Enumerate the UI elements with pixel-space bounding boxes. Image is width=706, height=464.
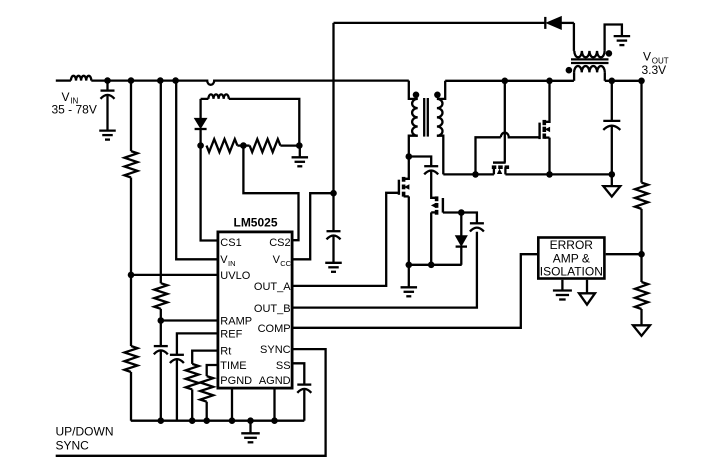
wire error amp output bbox=[606, 253, 642, 255]
label LM5025 bbox=[233, 216, 277, 230]
capacitor C_ramp bbox=[154, 346, 168, 354]
capacitor C_out bbox=[603, 121, 620, 130]
wire VIN input lead bbox=[56, 79, 71, 81]
wire secondary top rail bbox=[445, 80, 574, 82]
wire top line drop bbox=[332, 23, 334, 231]
wire REF pin line bbox=[177, 333, 217, 354]
winding L_out top bbox=[574, 51, 604, 57]
svg-text:TIME: TIME bbox=[220, 360, 246, 372]
node Rt ground bbox=[189, 417, 196, 424]
pin label UVLO bbox=[220, 270, 250, 282]
wire SYNC route bbox=[56, 349, 326, 456]
node Vout cap tap bbox=[609, 78, 616, 85]
node choke bottom phase dot bbox=[566, 67, 573, 74]
svg-text:CS1: CS1 bbox=[220, 237, 241, 249]
wire SS route bbox=[294, 363, 305, 384]
node sync gate tap bbox=[502, 78, 509, 85]
wire C_ss to rail bbox=[303, 389, 305, 420]
wire top line to choke bbox=[573, 23, 575, 51]
resistor R_uv2 UVLO lower bbox=[125, 346, 138, 372]
ground input cap bbox=[99, 131, 116, 140]
ground output triangle bbox=[603, 186, 620, 197]
node clamp node bbox=[406, 153, 413, 160]
pin label PGND bbox=[220, 375, 252, 387]
svg-text:LM5025: LM5025 bbox=[233, 216, 277, 230]
wire RAMP node to C_ramp bbox=[160, 321, 162, 347]
node output return bbox=[609, 171, 616, 178]
pin label VIN bbox=[220, 254, 235, 268]
wire secondary bottom lead bbox=[437, 136, 443, 175]
node TIME ground bbox=[203, 417, 210, 424]
wire OUT_B route bbox=[294, 232, 477, 308]
wire choke bottom left lead bbox=[573, 72, 575, 80]
wire secondary bottom rail right bbox=[505, 173, 611, 175]
capacitor C_clamp bbox=[424, 166, 438, 174]
node RAMP bbox=[158, 317, 165, 324]
diode D_snub bbox=[195, 109, 207, 146]
node feedback node bbox=[638, 251, 645, 258]
pin label CS2 bbox=[269, 237, 290, 249]
wire main ground stub bbox=[249, 421, 251, 433]
wire C_gate to gate node bbox=[443, 213, 477, 224]
node clamp gate bbox=[458, 209, 465, 216]
node primary phase dot bbox=[413, 92, 420, 99]
wire secondary top lead bbox=[437, 81, 445, 99]
resistor R_uv1 UVLO upper bbox=[125, 151, 138, 177]
wire Rt pin line bbox=[192, 351, 216, 364]
wire UVLO node to R_uv2 bbox=[130, 275, 132, 346]
transistor Q4 sync rectifier bbox=[492, 163, 509, 175]
wire COMP route bbox=[294, 254, 538, 328]
resistor R_fb1 bbox=[635, 183, 648, 209]
pin label CS1 bbox=[220, 237, 241, 249]
wire divider top bbox=[640, 81, 642, 183]
transistor Q1 main switch bbox=[399, 157, 410, 265]
node VIN pin feed top bbox=[172, 77, 179, 84]
wire top clamp line bbox=[334, 22, 546, 24]
wire rail to VIN pin bbox=[176, 81, 216, 260]
node UVLO divider mid bbox=[128, 272, 135, 279]
wire Vout cap stub bbox=[611, 81, 613, 121]
wire UVLO pin line bbox=[131, 274, 217, 276]
wire Q4 gate drop bbox=[504, 81, 506, 163]
node PGND rail bbox=[229, 417, 236, 424]
wire R_time to ground rail bbox=[206, 402, 208, 421]
wire choke top right lead bbox=[605, 25, 622, 51]
svg-text:CC: CC bbox=[280, 259, 291, 268]
label 3.3V bbox=[642, 63, 667, 77]
node VCC top-line junction bbox=[330, 190, 337, 197]
wire OUT_A route bbox=[294, 193, 399, 286]
wire Vout rail bbox=[605, 80, 644, 82]
pin label AGND bbox=[259, 375, 291, 387]
svg-text:ISOLATION: ISOLATION bbox=[540, 265, 603, 279]
diode D_gate bbox=[456, 213, 467, 265]
pin label OUT_A bbox=[254, 281, 291, 293]
wire Q4 gate hop bbox=[501, 133, 540, 138]
ground error amp bbox=[553, 291, 572, 300]
node main ground bbox=[247, 417, 254, 424]
wire rail to R_ramp bbox=[160, 81, 162, 284]
transistor Q2 active clamp bbox=[431, 196, 443, 264]
pin label TIME bbox=[220, 360, 246, 372]
inductor L_snub bbox=[208, 94, 228, 99]
wire secondary bottom rail left bbox=[443, 173, 494, 175]
node choke top phase dot bbox=[606, 50, 613, 57]
wire R_uv2 to ground rail bbox=[130, 372, 132, 421]
node snubber left bbox=[197, 142, 204, 149]
wire to input cap bbox=[106, 81, 108, 91]
pin label REF bbox=[220, 329, 242, 341]
wire snubber top bbox=[201, 99, 300, 146]
resistor R_ramp feed-forward bbox=[154, 283, 167, 309]
svg-text:V: V bbox=[643, 50, 651, 64]
winding T1 primary bbox=[412, 99, 418, 136]
wire output return stub bbox=[611, 174, 613, 186]
pin label RAMP bbox=[220, 315, 252, 327]
core L_out bbox=[571, 59, 609, 63]
wire VCC pin route bbox=[294, 193, 334, 259]
wire input rail with hop bbox=[91, 81, 409, 85]
capacitor C_vcc bbox=[327, 231, 341, 239]
node input cap junction bbox=[104, 77, 111, 84]
ground choke bbox=[614, 36, 631, 45]
node AGND rail bbox=[271, 417, 278, 424]
svg-text:PGND: PGND bbox=[220, 375, 252, 387]
svg-text:AMP &: AMP & bbox=[553, 251, 590, 265]
svg-text:SYNC: SYNC bbox=[260, 344, 291, 356]
svg-text:OUT_B: OUT_B bbox=[254, 303, 291, 315]
core T1 bbox=[424, 98, 428, 137]
ground VCC cap bbox=[325, 263, 342, 272]
ground divider triangle bbox=[633, 325, 650, 336]
label VIN bbox=[62, 90, 79, 106]
node snubber right bbox=[296, 142, 303, 149]
wire R_ramp to RAMP node bbox=[160, 309, 162, 321]
node RAMP feed top bbox=[157, 77, 164, 84]
svg-text:SS: SS bbox=[276, 360, 291, 372]
wire choke bottom right lead bbox=[604, 72, 606, 80]
winding L_out bottom bbox=[574, 66, 605, 72]
svg-text:SYNC: SYNC bbox=[56, 439, 90, 453]
wire R_uv1 to UVLO node bbox=[130, 178, 132, 275]
node ramp cap ground bbox=[158, 417, 165, 424]
svg-text:RAMP: RAMP bbox=[220, 315, 252, 327]
node secondary phase dot bbox=[434, 92, 441, 99]
wire CS1 line bbox=[201, 146, 217, 241]
resistor R_time bbox=[200, 376, 213, 402]
svg-text:OUT_A: OUT_A bbox=[254, 281, 291, 293]
label AMP & bbox=[553, 251, 590, 265]
label 35 - 78V bbox=[52, 103, 97, 117]
node Q3 drain tap bbox=[546, 78, 553, 85]
resistor R_snub1 bbox=[207, 139, 238, 152]
wire snub r2 to right bbox=[280, 144, 299, 146]
node Q1 source ground bbox=[406, 262, 413, 269]
pin label SS bbox=[276, 360, 291, 372]
label UP/DOWN bbox=[56, 425, 114, 439]
svg-text:AGND: AGND bbox=[259, 375, 291, 387]
wire snubber mid to CS2 bbox=[243, 146, 298, 241]
wire C_out bottom stub bbox=[611, 126, 613, 174]
wire snubber left drop bbox=[199, 99, 201, 109]
box LM5025 bbox=[218, 232, 292, 388]
capacitor C_gate clamp drive bbox=[470, 223, 484, 231]
capacitor C_ref bbox=[170, 355, 184, 363]
diode D_clamp top bbox=[545, 17, 574, 30]
wire Q1 ground stub bbox=[408, 265, 410, 288]
pin label SYNC bbox=[260, 344, 291, 356]
svg-text:UP/DOWN: UP/DOWN bbox=[56, 425, 114, 439]
ground error amp triangle bbox=[579, 293, 595, 304]
box ERROR AMP bbox=[538, 238, 604, 279]
svg-text:CS2: CS2 bbox=[269, 237, 290, 249]
ground snubber bbox=[292, 157, 309, 166]
wire TIME pin line bbox=[207, 365, 217, 376]
wire C_ref to ground rail bbox=[176, 360, 178, 421]
wire PGND stub bbox=[231, 390, 233, 421]
resistor R_t oscillator bbox=[186, 364, 199, 390]
wire C_ramp to ground rail bbox=[160, 351, 162, 421]
label ISOLATION bbox=[540, 265, 603, 279]
wire C_clamp to Q2 bbox=[431, 171, 436, 198]
wire input cap to ground bbox=[106, 95, 108, 130]
wire Q4 gate riser bbox=[476, 137, 501, 174]
wire error amp iso stub bbox=[586, 280, 588, 294]
wire bottom ground rail bbox=[131, 420, 304, 422]
svg-text:Rt: Rt bbox=[220, 346, 231, 358]
pin label OUT_B bbox=[254, 303, 291, 315]
svg-text:ERROR: ERROR bbox=[550, 238, 594, 252]
resistor R_snub2 bbox=[250, 139, 281, 152]
label VOUT bbox=[643, 50, 669, 66]
node Q4 gate node bbox=[472, 171, 479, 178]
node Vout divider tap bbox=[638, 78, 645, 85]
wire error amp ground stub bbox=[561, 280, 563, 291]
label SYNC bbox=[56, 439, 90, 453]
svg-text:IN: IN bbox=[228, 259, 236, 268]
svg-text:UVLO: UVLO bbox=[220, 270, 250, 282]
svg-text:3.3V: 3.3V bbox=[642, 63, 667, 77]
transistor Q3 sync rectifier bbox=[540, 81, 551, 175]
wire rail to R_uv1 bbox=[130, 81, 132, 152]
wire clamp cap top bbox=[409, 157, 431, 167]
node Q3 source bbox=[546, 171, 553, 178]
wire snub r1-r2 bbox=[237, 144, 249, 146]
svg-text:35 - 78V: 35 - 78V bbox=[52, 103, 97, 117]
wire AGND stub bbox=[273, 390, 275, 421]
wire primary bottom lead bbox=[409, 136, 418, 157]
capacitor C_ss bbox=[297, 385, 311, 393]
svg-text:COMP: COMP bbox=[258, 323, 291, 335]
wire R_t to ground rail bbox=[191, 389, 193, 420]
pin label Rt bbox=[220, 346, 231, 358]
svg-text:REF: REF bbox=[220, 329, 242, 341]
node UVLO divider top bbox=[128, 77, 135, 84]
wire primary ground rail bbox=[409, 264, 462, 266]
node snubber mid bbox=[240, 142, 247, 149]
ground primary bbox=[401, 287, 418, 296]
wire primary top lead bbox=[409, 81, 418, 99]
pin label VCC bbox=[273, 254, 292, 268]
wire RAMP pin line bbox=[161, 319, 217, 321]
wire divider bottom bbox=[640, 309, 642, 325]
wire snubber ground stub bbox=[299, 146, 301, 158]
inductor L1 input filter bbox=[71, 76, 91, 81]
wire C_vcc to ground bbox=[332, 236, 334, 263]
ground main bbox=[241, 433, 260, 442]
resistor R_fb2 bbox=[635, 282, 648, 309]
winding T1 secondary bbox=[437, 99, 443, 136]
capacitor C_in input bulk bbox=[101, 91, 115, 99]
node Q2 drain ground bbox=[428, 262, 435, 269]
wire divider mid bbox=[640, 209, 642, 282]
pin label COMP bbox=[258, 323, 291, 335]
label ERROR bbox=[550, 238, 594, 252]
